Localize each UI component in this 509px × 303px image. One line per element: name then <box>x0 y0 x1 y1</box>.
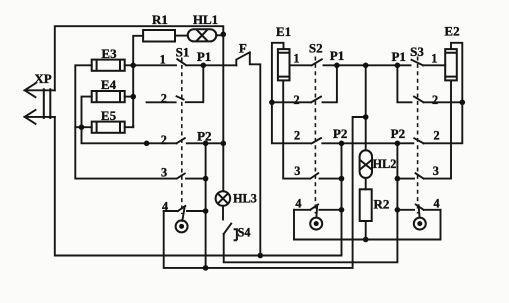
wire: E1 bottom lead to contact 3 row <box>283 80 310 178</box>
svg-text:E3: E3 <box>101 46 117 61</box>
switch S2 coupling (dashed) <box>314 57 316 214</box>
heater E2 <box>445 49 457 80</box>
svg-text:F: F <box>239 40 247 55</box>
svg-text:XP: XP <box>34 71 51 86</box>
wire: S2 contact 4 pole link <box>320 209 342 211</box>
heater E4 <box>92 91 125 102</box>
switch S1 contact 2b blade <box>177 138 185 143</box>
wire: S3 contact 4 pole link <box>397 209 414 211</box>
svg-text:1: 1 <box>160 53 166 67</box>
wire: E1 top bracket to contact 2 bus and P2 row <box>272 43 311 144</box>
svg-text:2: 2 <box>294 93 300 107</box>
svg-text:2: 2 <box>161 91 167 105</box>
fuse-switch F <box>236 52 250 65</box>
svg-text:P1: P1 <box>197 49 211 64</box>
wire: S1 socket frame + riser to HL2 node <box>164 117 366 268</box>
wire: R1 left lead <box>133 36 143 127</box>
svg-text:E4: E4 <box>101 77 117 92</box>
wire: E1 tap to contact 1 <box>290 64 312 66</box>
svg-text:S1: S1 <box>176 45 190 60</box>
svg-text:E1: E1 <box>276 24 291 39</box>
wire: S2 contact 4 row <box>294 209 310 211</box>
switch S1 coupling (dashed) <box>181 58 183 215</box>
lamp HL2 <box>360 150 372 178</box>
wire: P2 row S2-S3 <box>322 142 413 144</box>
wire: S3 contact 1 to E2 tap <box>423 64 445 66</box>
wire: top rail from XP to HL1 junction <box>55 26 224 90</box>
svg-text:R2: R2 <box>374 197 390 212</box>
wire: socket XS2 drop <box>315 205 318 217</box>
wire: E2 bottom lead to contact 3 row <box>424 80 451 178</box>
switch S1 contact 1 blade <box>177 59 185 65</box>
switch S2 contact 2b blade <box>312 138 321 143</box>
svg-text:2: 2 <box>432 93 438 107</box>
wire: S1 P1 link to contact 2 <box>186 65 204 102</box>
wire: E3 left lead + left element bus down to contact 3 <box>75 65 176 178</box>
wire: HL3 to S4 <box>222 206 224 219</box>
wire: P1 row S2-S3 <box>324 64 411 66</box>
wire: S3 contact 3 pole link <box>397 178 414 180</box>
switch S2 contact 3 blade <box>310 173 318 178</box>
wire: S2 contact 3 pole link <box>320 178 342 180</box>
wire: E5 right lead riser <box>125 126 134 127</box>
wire: S4 output along bottom + S3 P2 bus <box>224 143 398 262</box>
svg-text:P1: P1 <box>391 49 405 64</box>
switch S3 contact 2b blade <box>414 138 423 143</box>
switch S3 contact 3 blade <box>416 173 424 178</box>
svg-text:4: 4 <box>295 196 301 210</box>
lamp HL1 <box>188 29 217 41</box>
switch S2 contact 4 blade <box>310 205 318 210</box>
heater E5 <box>92 122 125 133</box>
socket XS2 <box>310 218 322 230</box>
svg-text:E5: E5 <box>101 108 117 123</box>
connector XP pin 2 (arrow) <box>25 110 55 124</box>
node junction dots <box>79 32 465 271</box>
resistor R1 <box>143 30 175 42</box>
switch S2 contact 1 blade <box>312 59 322 65</box>
svg-text:1: 1 <box>293 52 299 66</box>
wire: F output down to bottom rail <box>250 53 260 256</box>
wire: E2 top bracket to contact 2 bus and P2 row <box>424 43 463 144</box>
svg-text:HL3: HL3 <box>233 192 257 206</box>
svg-text:R1: R1 <box>152 12 168 27</box>
svg-text:HL1: HL1 <box>193 12 218 27</box>
wire: HL1 right lead <box>216 34 223 36</box>
switch S1 contact 3 blade <box>177 174 185 179</box>
push-button S4 <box>224 224 237 241</box>
svg-text:S2: S2 <box>309 41 323 56</box>
svg-text:HL2: HL2 <box>373 157 397 171</box>
wire: S1 P2 bus <box>205 143 207 268</box>
wire: S1 contact 4 pole link <box>187 210 206 212</box>
svg-text:3: 3 <box>294 164 300 178</box>
wire: E5 left lead <box>75 126 91 128</box>
heater E1 <box>278 49 290 80</box>
wire: socket boxes bottom frame <box>294 210 441 240</box>
switch S3 contact 2 blade <box>414 97 424 103</box>
switch S3 coupling (dashed) <box>417 57 419 214</box>
resistor R2 <box>360 189 372 221</box>
socket XS1 <box>176 220 188 232</box>
wire: S1 contact 2 row <box>147 101 176 103</box>
wire: S3 P1 link to contact 2 <box>397 65 411 102</box>
switch S3 contact 4 blade <box>416 205 424 210</box>
wire: S1 contact 3 pole link <box>186 178 206 180</box>
svg-text:S4: S4 <box>238 226 251 240</box>
wire: HL1 junction down through P2 row to HL3 <box>222 34 224 191</box>
socket XS3 <box>414 218 426 230</box>
connector XP pin 1 (arrow) <box>25 83 55 97</box>
wire: P1 row to HL2 <box>365 65 367 150</box>
wire: R1 right lead <box>175 35 188 37</box>
switch S3 contact 1 blade <box>412 60 424 66</box>
svg-text:3: 3 <box>433 164 439 178</box>
wire: S1 pole P1 row to fuse F <box>186 64 236 66</box>
wire: S1 P2 row pole <box>187 142 224 144</box>
svg-text:E2: E2 <box>444 23 459 38</box>
wire: E4 right lead <box>125 96 134 98</box>
svg-text:1: 1 <box>431 51 437 65</box>
switch S1 contact 2 blade <box>177 96 184 99</box>
svg-text:2: 2 <box>161 133 167 147</box>
svg-text:P1: P1 <box>330 48 344 63</box>
wire: S1 contact 4 row <box>164 210 178 212</box>
wire: S2 contact 2 row <box>272 101 311 103</box>
heater E3 <box>92 60 125 71</box>
svg-text:3: 3 <box>161 166 167 180</box>
switch S2 contact 2 blade <box>311 97 321 103</box>
wire: S3 contact 2 row <box>424 101 463 103</box>
svg-text:2: 2 <box>294 129 300 143</box>
connector XP body <box>44 88 51 119</box>
wire: socket XS1 drop <box>182 207 184 221</box>
svg-text:P2: P2 <box>391 126 405 141</box>
wire: HL2 to R2 <box>365 178 367 189</box>
svg-text:2: 2 <box>434 129 440 143</box>
wire: R2 bottom lead <box>365 221 367 240</box>
wire: left rail down + bottom rail + S2 P2 bus <box>55 117 342 256</box>
wire: socket XS3 drop <box>419 205 420 217</box>
wire: S3 contact 4 row <box>424 209 441 211</box>
wire: E3 right lead + contact 1 row <box>125 64 176 66</box>
wire: S2 P1 link to contact 2 <box>323 65 337 102</box>
wire: E4 left lead + link bus to P2 row <box>82 97 177 144</box>
lamp HL3 <box>216 191 231 206</box>
switch S1 contact 4 blade <box>178 206 186 211</box>
svg-text:4: 4 <box>434 196 440 210</box>
svg-text:P2: P2 <box>333 126 347 141</box>
